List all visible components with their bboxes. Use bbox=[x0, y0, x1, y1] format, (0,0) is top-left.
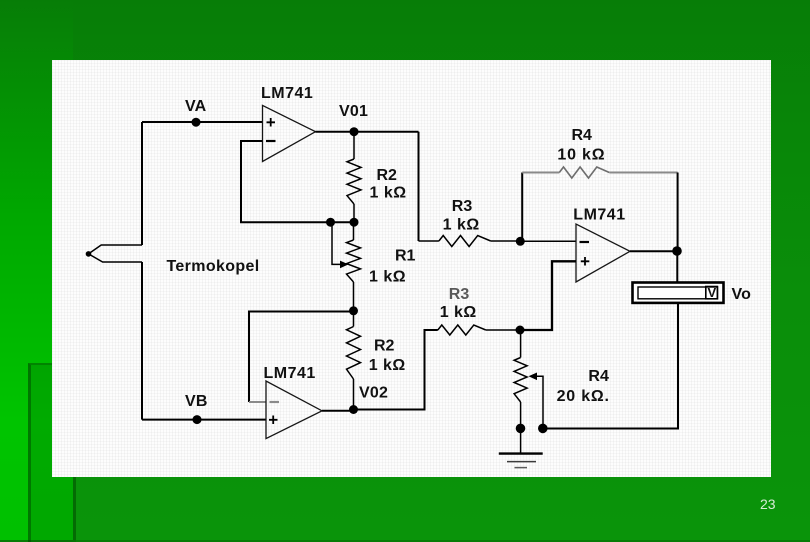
svg-text:1 kΩ: 1 kΩ bbox=[440, 304, 477, 321]
wire U2 output to V02 bbox=[322, 410, 354, 412]
wire U3 output bbox=[630, 250, 677, 252]
svg-text:R3: R3 bbox=[452, 198, 473, 215]
svg-text:1 kΩ: 1 kΩ bbox=[443, 217, 480, 234]
node junction R1-R2 lower bbox=[349, 306, 358, 315]
wire U3 feedback top left (gray) bbox=[522, 172, 559, 174]
wire left lower rail bbox=[141, 262, 143, 420]
svg-text:LM741: LM741 bbox=[264, 365, 316, 382]
resistor R3 (upper) bbox=[419, 236, 521, 247]
svg-text:1 kΩ: 1 kΩ bbox=[369, 269, 406, 286]
svg-text:VB: VB bbox=[185, 393, 208, 410]
node VA bbox=[192, 118, 201, 127]
svg-text:R1: R1 bbox=[395, 248, 416, 265]
potentiometer R1 bbox=[347, 222, 361, 310]
op-amp U3 LM741 bbox=[576, 224, 630, 282]
resistor R3 (lower) bbox=[438, 325, 520, 335]
wiper R4 (20k) bbox=[529, 373, 544, 429]
wire U3 feedback top right (gray) bbox=[609, 172, 677, 174]
node R3 lower junction bbox=[516, 326, 525, 335]
wire V01 to R3 upper bbox=[418, 132, 420, 241]
wiper R1 bbox=[332, 222, 349, 268]
svg-text:R3: R3 bbox=[449, 286, 470, 303]
wire VB input bbox=[142, 419, 266, 421]
op-amp U2 LM741 bbox=[266, 381, 322, 439]
ground symbol bbox=[499, 429, 543, 468]
resistor R4 (10k feedback) bbox=[559, 167, 609, 178]
node VB bbox=[193, 415, 202, 424]
node V02 bbox=[349, 405, 358, 414]
node ground junction right bbox=[538, 424, 548, 434]
wire U2 feedback bbox=[249, 312, 354, 403]
resistor R2 (upper) bbox=[347, 132, 361, 223]
svg-text:Vo: Vo bbox=[732, 286, 752, 303]
svg-text:20 kΩ.: 20 kΩ. bbox=[557, 388, 610, 405]
node junction left of R1 bbox=[326, 218, 335, 227]
wire bottom to meter bbox=[543, 303, 678, 429]
resistor R2 (lower) bbox=[347, 311, 361, 410]
svg-text:1 kΩ: 1 kΩ bbox=[369, 357, 406, 374]
svg-text:Termokopel: Termokopel bbox=[167, 258, 260, 275]
op-amp U1 LM741 bbox=[263, 105, 316, 161]
svg-text:10 kΩ: 10 kΩ bbox=[557, 146, 605, 163]
wire node to U3 non-inverting input bbox=[520, 261, 576, 330]
svg-text:1 kΩ: 1 kΩ bbox=[370, 184, 407, 201]
svg-text:V02: V02 bbox=[359, 384, 388, 401]
node ground junction left bbox=[516, 424, 526, 434]
wire U2 inverting stub bbox=[249, 401, 266, 403]
wire node to U3 inverting input bbox=[520, 240, 576, 242]
node R3-R4 junction bbox=[516, 237, 525, 246]
svg-text:R2: R2 bbox=[374, 338, 395, 355]
wire V02 to R3 lower bbox=[354, 330, 438, 410]
svg-text:V01: V01 bbox=[339, 103, 368, 120]
node V01 bbox=[350, 127, 359, 136]
svg-text:LM741: LM741 bbox=[261, 85, 313, 102]
node U3 output bbox=[672, 246, 682, 256]
potentiometer R4 (20k) bbox=[514, 330, 527, 429]
wire U3 output node to meter bbox=[676, 251, 678, 283]
svg-text:LM741: LM741 bbox=[573, 206, 625, 223]
thermocouple TC1 bbox=[86, 245, 142, 262]
wire VA input bbox=[142, 121, 263, 123]
svg-text:R2: R2 bbox=[377, 167, 398, 184]
wire U1 feedback bbox=[241, 141, 354, 222]
wire U3 feedback left vertical bbox=[521, 173, 523, 242]
wire U3 feedback right vertical bbox=[677, 173, 679, 252]
voltmeter VI bbox=[633, 283, 724, 303]
wire U1 output to V01 bbox=[316, 131, 419, 133]
svg-text:VA: VA bbox=[185, 98, 207, 115]
svg-text:R4: R4 bbox=[588, 368, 609, 385]
node junction R2-R1 bbox=[350, 218, 359, 227]
wire left upper rail bbox=[141, 122, 143, 245]
svg-text:R4: R4 bbox=[572, 127, 593, 144]
svg-text:V: V bbox=[708, 285, 717, 300]
